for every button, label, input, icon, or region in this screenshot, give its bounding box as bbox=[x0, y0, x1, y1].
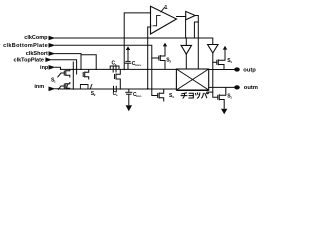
svg-text:inv+: inv+ bbox=[135, 63, 141, 67]
svg-text:1: 1 bbox=[164, 5, 167, 11]
svg-text:clkShort: clkShort bbox=[26, 51, 48, 57]
svg-text:clkComp: clkComp bbox=[24, 35, 48, 41]
svg-text:clkBottomPlate: clkBottomPlate bbox=[3, 43, 48, 49]
svg-text:inp: inp bbox=[40, 65, 49, 71]
svg-text:clkTopPlate: clkTopPlate bbox=[14, 57, 44, 63]
svg-text:outp: outp bbox=[243, 68, 256, 74]
svg-text:outm: outm bbox=[244, 85, 258, 91]
svg-text:inv-: inv- bbox=[136, 94, 141, 98]
svg-text:inm: inm bbox=[34, 84, 44, 90]
